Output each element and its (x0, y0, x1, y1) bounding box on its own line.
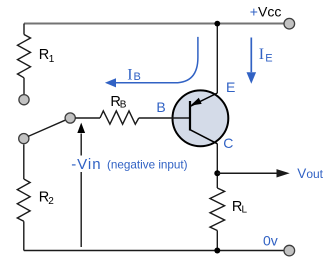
Vout arrow (217, 172, 276, 174)
svg-text:I: I (259, 46, 264, 63)
wire node to RB (75, 117, 100, 119)
svg-text:R: R (39, 47, 49, 63)
junction dot Vout (214, 170, 220, 176)
resistor RL (210, 188, 225, 231)
terminal 0v (284, 245, 295, 256)
terminal +Vcc (284, 18, 295, 29)
transistor Q1 body (173, 90, 229, 146)
emitter arrowhead (PNP) (190, 98, 201, 106)
svg-text:E: E (265, 52, 272, 64)
label -Vin background (70, 156, 103, 173)
junction dot bottom rail (214, 248, 220, 254)
svg-text:Vout: Vout (297, 166, 323, 181)
svg-text:I: I (127, 67, 132, 84)
svg-text:(negative input): (negative input) (107, 159, 188, 172)
IB curved arrow (116, 37, 198, 83)
-Vin input line (80, 134, 82, 248)
transistor emitter lead (190, 93, 217, 106)
resistor R1 (18, 35, 31, 78)
svg-text:L: L (242, 205, 248, 216)
svg-text:2: 2 (48, 196, 54, 207)
wire below RL (216, 231, 218, 251)
svg-text:B: B (120, 100, 127, 111)
wire base lead (139, 117, 190, 119)
transistor base bar (189, 101, 191, 131)
wire R2 branch down (23, 145, 25, 180)
wire emitter vertical (216, 24, 218, 94)
resistor RB (100, 111, 139, 124)
svg-text:B: B (134, 71, 141, 83)
node input terminal (65, 113, 75, 123)
terminal below R1 (19, 95, 29, 105)
wire collector vertical (216, 144, 218, 188)
svg-text:-Vin: -Vin (71, 156, 101, 173)
-Vin arrowhead (77, 123, 85, 133)
wire left vertical upper (23, 24, 25, 35)
transistor collector lead (190, 130, 217, 144)
svg-text:B: B (156, 99, 165, 115)
junction dot top rail (214, 21, 220, 27)
wire diagonal to node (28, 120, 66, 137)
wire below R1 (23, 78, 25, 95)
terminal left middle (19, 134, 29, 144)
svg-text:E: E (226, 79, 235, 95)
svg-text:0v: 0v (263, 233, 278, 249)
IE arrow (250, 38, 252, 73)
resistor R2 (17, 179, 30, 221)
svg-text:C: C (223, 135, 233, 151)
svg-text:+Vcc: +Vcc (250, 4, 282, 20)
svg-text:1: 1 (49, 54, 55, 65)
wire bottom rail (0v) (24, 250, 285, 252)
wire top rail (+Vcc) (24, 23, 284, 25)
wire below R2 (23, 221, 25, 250)
